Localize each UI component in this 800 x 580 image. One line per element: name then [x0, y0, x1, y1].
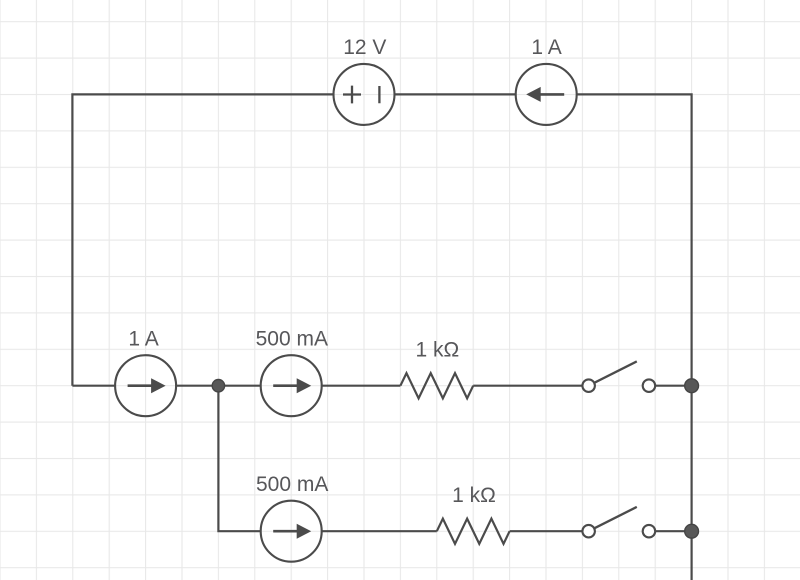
svg-text:500 mA: 500 mA [256, 327, 328, 350]
current source I4 500 mA (bottom, arrow right) [261, 501, 322, 562]
current source I2 1 A (mid, arrow right) [115, 355, 176, 416]
wire: mid row from R1 to switch S1 [473, 385, 582, 387]
svg-text:1 kΩ: 1 kΩ [452, 484, 496, 507]
switch S1 (mid, open) [582, 361, 655, 392]
wire: bottom row from I4 to R2 [322, 530, 437, 532]
wire: mid row from I2 to I3 through node A [176, 385, 261, 387]
wire: mid row from left rail to I2 [72, 385, 115, 387]
wire: top-right segment and right rail [577, 94, 692, 580]
svg-text:1 A: 1 A [531, 36, 561, 59]
svg-text:12 V: 12 V [343, 36, 386, 59]
junction dot: bottom row to right rail [685, 524, 699, 538]
svg-text:500 mA: 500 mA [256, 473, 328, 496]
current source I1 1 A (top, arrow left) [516, 64, 577, 125]
current source I3 500 mA (mid, arrow right) [261, 355, 322, 416]
resistor R1 1 kOhm (mid) [400, 373, 473, 398]
switch S2 (bottom, open) [582, 507, 655, 538]
resistor R2 1 kOhm (bottom) [437, 519, 510, 544]
svg-text:1 kΩ: 1 kΩ [415, 338, 459, 361]
wire: bottom row from R2 to switch S2 [510, 530, 583, 532]
wire: bottom row from S2 to right rail [655, 530, 691, 532]
voltage source V1 12 V [334, 64, 395, 125]
wire: mid row from I3 to R1 [322, 385, 401, 387]
wire: left rail with top-left corner [72, 94, 333, 385]
junction dot: mid row to right rail [685, 379, 699, 393]
wire: top segment between V1 and I1 [395, 93, 516, 95]
svg-text:1 A: 1 A [128, 327, 158, 350]
node A junction dot [212, 380, 224, 392]
wire: branch from node A down and to I4 [218, 386, 260, 532]
wire: mid row from S1 to right rail [655, 385, 691, 387]
